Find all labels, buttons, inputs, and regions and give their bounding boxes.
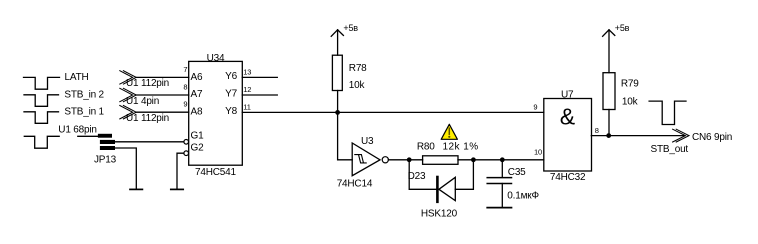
svg-text:10k: 10k — [349, 80, 366, 91]
svg-text:R80: R80 — [417, 142, 435, 153]
svg-text:D23: D23 — [408, 171, 426, 182]
svg-text:&: & — [560, 103, 575, 129]
svg-text:Y7: Y7 — [225, 89, 237, 100]
svg-text:G1: G1 — [191, 131, 205, 142]
diode D23 HSK120 — [408, 160, 474, 220]
wire Y6 stub — [242, 76, 277, 78]
svg-text:U1 112pin: U1 112pin — [126, 78, 169, 89]
power +5v (R78) — [331, 23, 358, 55]
gate U7 74HC32 — [533, 89, 598, 183]
svg-text:+5в: +5в — [343, 23, 358, 33]
ground (below C35) — [487, 207, 511, 209]
port arrow CN6 9pin — [651, 129, 733, 155]
waveform STB_in 2 — [24, 89, 105, 106]
svg-text:C35: C35 — [508, 167, 526, 178]
wire U7 pin 8 to CN6 — [591, 135, 684, 137]
svg-text:12k 1%: 12k 1% — [443, 142, 479, 153]
junction pin8/R79 — [606, 133, 611, 138]
waveform U1 68pin — [24, 124, 96, 148]
port arrow U1 112pin (row 3) — [120, 106, 169, 125]
jumper JP13 — [94, 134, 117, 166]
port arrow U1 4pin (row 2) — [120, 88, 159, 107]
svg-text:11: 11 — [243, 102, 250, 111]
waveform LATH — [24, 72, 89, 89]
svg-text:10: 10 — [534, 148, 542, 157]
wire R78 to bus — [337, 91, 339, 113]
inverter U3 74HC14 (Schmitt trigger) — [337, 136, 389, 190]
svg-text:A8: A8 — [191, 107, 203, 118]
svg-text:74HC14: 74HC14 — [337, 179, 373, 190]
wire Y7 stub — [242, 94, 277, 96]
svg-text:R78: R78 — [349, 63, 367, 74]
wire Y8 bus to U7 pin 9 — [242, 111, 544, 113]
svg-text:12: 12 — [243, 85, 251, 94]
wire bus down to U3 input — [338, 112, 353, 159]
svg-text:10k: 10k — [622, 96, 639, 107]
resistor R78 — [332, 55, 367, 91]
wire U3 output to R80 — [388, 159, 422, 161]
wire to pin 7 — [136, 76, 189, 78]
junction bus/R78 — [335, 110, 340, 115]
waveform STB_out — [649, 101, 686, 124]
svg-text:G2: G2 — [191, 142, 205, 153]
wire R80 to U7 pin 10 — [458, 159, 544, 161]
svg-text:U1 112pin: U1 112pin — [126, 113, 169, 124]
warning triangle — [441, 124, 457, 139]
svg-text:13: 13 — [243, 67, 251, 76]
svg-text:STB_in 2: STB_in 2 — [64, 89, 104, 100]
svg-text:A6: A6 — [191, 72, 203, 83]
svg-text:A7: A7 — [191, 89, 203, 100]
svg-text:74HC541: 74HC541 — [195, 167, 236, 178]
G2 inversion bubble — [184, 151, 189, 156]
wire R79 to pin8 net — [608, 110, 610, 136]
svg-text:U1 68pin: U1 68pin — [58, 124, 96, 135]
svg-text:8: 8 — [595, 126, 599, 135]
resistor R80 — [417, 142, 479, 165]
svg-text:9: 9 — [183, 100, 187, 109]
wire JP13 to ground — [115, 148, 136, 189]
waveform STB_in 1 — [24, 107, 105, 124]
junction R80/D23 right — [471, 157, 476, 162]
wire U1 68pin to JP13 — [78, 135, 99, 137]
IC U34 74HC541 — [183, 53, 251, 178]
svg-text:STB_out: STB_out — [651, 144, 689, 155]
power +5v (R79) — [603, 23, 630, 72]
junction U3 out / D23 — [407, 157, 412, 162]
svg-text:7: 7 — [183, 65, 187, 74]
svg-text:HSK120: HSK120 — [421, 209, 458, 220]
svg-text:9: 9 — [533, 102, 537, 111]
svg-text:U34: U34 — [207, 53, 225, 64]
svg-text:74HC32: 74HC32 — [550, 172, 586, 183]
wire to pin 9 — [136, 111, 189, 113]
svg-text:R79: R79 — [621, 79, 639, 90]
svg-text:LATH: LATH — [65, 72, 89, 83]
svg-text:U1 4pin: U1 4pin — [126, 96, 159, 107]
port arrow U1 112pin (row 1) — [120, 71, 169, 90]
svg-text:0.1мкФ: 0.1мкФ — [507, 190, 539, 201]
resistor R79 — [603, 73, 639, 110]
svg-text:Y8: Y8 — [225, 106, 237, 117]
svg-text:8: 8 — [183, 83, 187, 92]
svg-text:STB_in 1: STB_in 1 — [64, 107, 104, 118]
svg-text:CN6 9pin: CN6 9pin — [692, 132, 732, 143]
svg-text:U3: U3 — [361, 136, 374, 147]
wire to pin 8 — [136, 94, 189, 96]
svg-text:Y6: Y6 — [225, 71, 237, 82]
capacitor C35 — [487, 160, 539, 207]
svg-text:JP13: JP13 — [94, 154, 117, 165]
wire JP13 to G1 — [115, 141, 184, 143]
ground (below G2) — [171, 188, 183, 190]
svg-text:U7: U7 — [561, 89, 574, 100]
svg-text:+5в: +5в — [615, 23, 630, 33]
G1 inversion bubble — [184, 140, 189, 145]
wire G2 to ground — [177, 153, 184, 189]
ground (below JP13) — [130, 188, 142, 190]
junction C35 — [500, 157, 505, 162]
